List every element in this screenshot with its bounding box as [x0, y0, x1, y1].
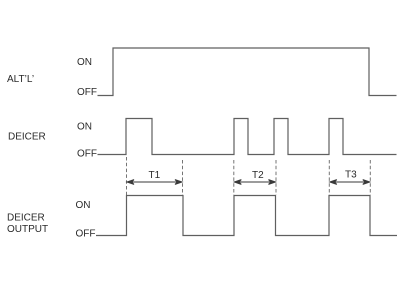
svg-text:OFF: OFF — [77, 149, 97, 160]
svg-text:T3: T3 — [345, 170, 357, 181]
svg-text:T2: T2 — [252, 170, 264, 181]
waveform DEICER OUTPUT — [96, 196, 397, 236]
dimension arrow T1 — [127, 180, 182, 185]
svg-text:ON: ON — [77, 122, 92, 133]
dashed guide line T2 left — [233, 160, 235, 195]
waveform ALT'L' — [98, 48, 397, 96]
svg-text:OUTPUT: OUTPUT — [7, 224, 48, 235]
svg-text:ALT’L’: ALT’L’ — [7, 74, 34, 85]
waveform DEICER — [98, 119, 397, 155]
dimension arrow T3 — [330, 180, 370, 185]
svg-text:DEICER: DEICER — [8, 132, 46, 143]
svg-text:DEICER: DEICER — [7, 213, 45, 224]
svg-text:ON: ON — [77, 57, 92, 68]
svg-text:OFF: OFF — [77, 87, 97, 98]
dimension arrow T2 — [234, 180, 275, 185]
dashed guide line T3 right — [369, 160, 371, 195]
dashed guide line T1 left — [126, 157, 128, 195]
dashed guide line T3 left — [328, 160, 330, 195]
svg-text:OFF: OFF — [76, 229, 96, 240]
dashed guide line T1 right — [182, 160, 184, 195]
svg-text:ON: ON — [76, 200, 91, 211]
dashed guide line T2 right — [275, 160, 277, 195]
svg-text:T1: T1 — [149, 170, 161, 181]
